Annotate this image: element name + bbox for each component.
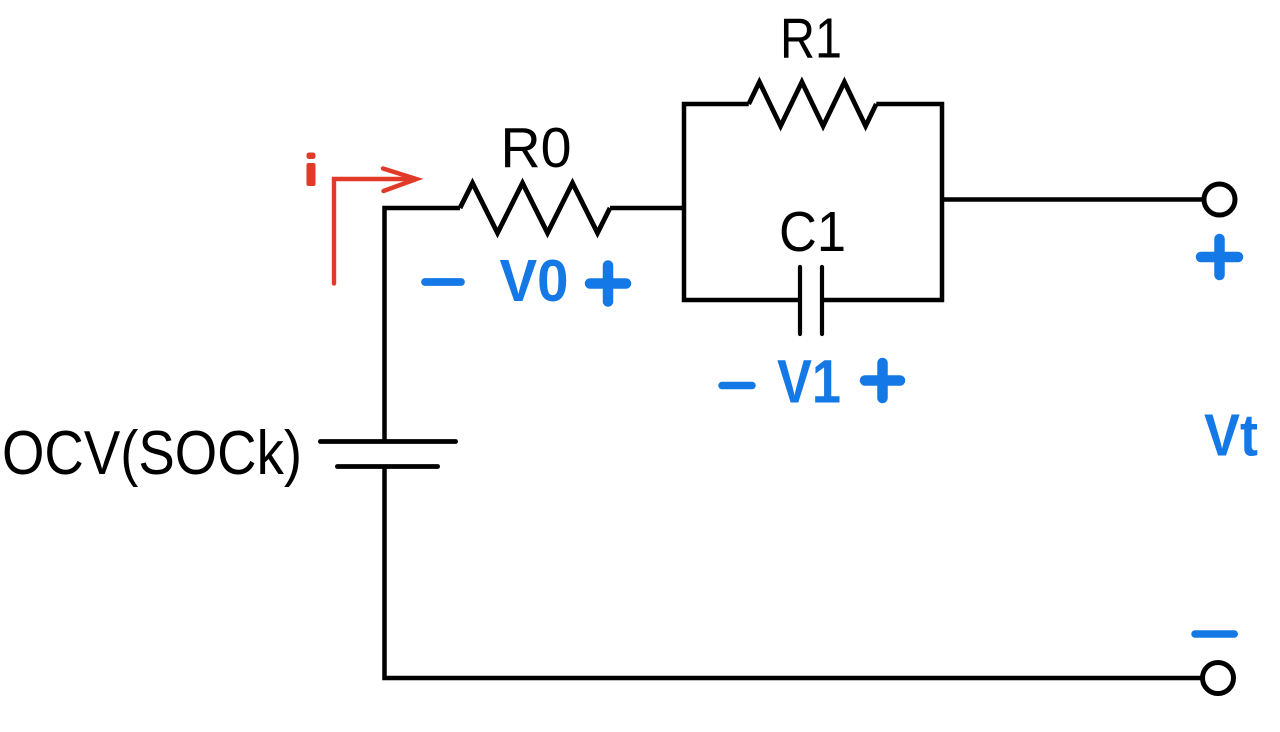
- svg-text:Vt: Vt: [1204, 403, 1258, 469]
- resistor R1: [749, 7, 877, 127]
- current arrow: [334, 169, 417, 284]
- svg-text:V1: V1: [777, 348, 841, 416]
- polarity + at terminal: [1201, 239, 1238, 275]
- svg-text:C1: C1: [779, 200, 846, 264]
- wire: parallel block left side: [684, 104, 800, 300]
- wire: output top: [942, 197, 1203, 202]
- svg-text:OCV(SOCk): OCV(SOCk): [2, 419, 302, 488]
- wire: source bottom plate down and along bottom return: [385, 467, 1203, 679]
- current label i: [307, 153, 316, 187]
- polarity - (V1): [722, 382, 752, 390]
- polarity + (V0): [590, 266, 626, 302]
- wire: R0 to parallel block: [610, 206, 684, 211]
- polarity - at terminal: [1195, 630, 1234, 638]
- capacitor C1: [779, 200, 846, 334]
- resistor R0: [460, 116, 610, 233]
- voltage source OCV(SOCk): [2, 419, 456, 488]
- terminal: negative: [1203, 663, 1234, 694]
- wire: node to R0 and down to source top plate: [385, 208, 461, 442]
- svg-text:R0: R0: [501, 116, 572, 180]
- polarity - (V0): [425, 278, 461, 286]
- svg-text:V0: V0: [500, 248, 569, 314]
- wire: parallel block right side: [822, 104, 942, 300]
- polarity + (V1): [865, 363, 900, 398]
- terminal: positive: [1204, 184, 1235, 215]
- svg-text:R1: R1: [780, 7, 842, 71]
